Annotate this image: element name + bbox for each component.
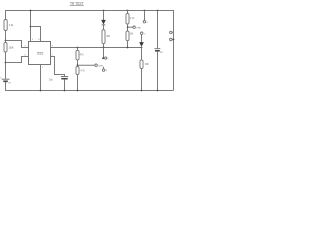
node pin1 ground junction bbox=[40, 90, 42, 92]
wire junction to R3 bbox=[77, 48, 79, 51]
terminal probe upper circle bbox=[170, 31, 173, 34]
svg-text:4.7k: 4.7k bbox=[80, 71, 85, 73]
node R7 output rail junction bbox=[127, 47, 129, 49]
wire R4 to ground bbox=[77, 75, 79, 91]
LED D2 bbox=[139, 42, 144, 47]
wire bottom ground rail bbox=[6, 82, 174, 91]
wire node D to PNP base terminal bbox=[128, 26, 133, 28]
wire R2 bottom to node B bbox=[5, 52, 7, 79]
terminal base NPN circle bbox=[95, 64, 97, 66]
node LED1 supply junction bbox=[103, 10, 105, 12]
svg-text:E: E bbox=[106, 70, 108, 72]
capacitor C1 bottom plate bbox=[61, 78, 67, 80]
terminal collector2 circle bbox=[141, 32, 143, 34]
terminal emitter2 circle bbox=[143, 21, 145, 23]
node collector stub junction bbox=[102, 57, 104, 59]
svg-text:10u: 10u bbox=[49, 80, 54, 82]
wire R7 to output rail bbox=[127, 41, 129, 48]
battery BT1 minus plate bbox=[3, 80, 8, 82]
node C2 ground junction bbox=[157, 90, 159, 92]
title TR TEST bbox=[70, 1, 84, 6]
terminal PNP base circle bbox=[133, 26, 135, 28]
node R5 output rail junction bbox=[103, 47, 105, 49]
resistor R6 4.7k bbox=[126, 13, 129, 24]
wire supply to LED1 bbox=[103, 11, 105, 21]
svg-text:1M: 1M bbox=[130, 33, 133, 35]
svg-text:C: C bbox=[144, 33, 146, 35]
svg-text:1u: 1u bbox=[160, 52, 163, 54]
node C2 supply junction bbox=[157, 10, 159, 12]
wire supply to emitter2 terminal bbox=[144, 11, 146, 21]
node Vcc tap junction bbox=[30, 10, 32, 12]
wire R8 to ground bbox=[141, 69, 143, 91]
svg-text:555: 555 bbox=[37, 52, 43, 56]
wire top supply rail bbox=[6, 11, 174, 91]
wire pin 1 to ground bbox=[40, 65, 42, 91]
wire R6 to node D bbox=[127, 24, 129, 31]
capacitor C1 top plate bbox=[61, 76, 68, 78]
node C1 ground junction bbox=[64, 90, 66, 92]
svg-text:390: 390 bbox=[145, 64, 150, 66]
resistor R7 1M bbox=[126, 31, 129, 41]
wire branch to pin 8 bbox=[31, 27, 41, 42]
wire pin 3 output rail bbox=[51, 47, 142, 49]
terminal collector circle bbox=[105, 57, 107, 59]
wire probe upper stub bbox=[172, 31, 174, 33]
resistor R1 3.3k bbox=[4, 20, 7, 31]
svg-text:1: 1 bbox=[42, 67, 44, 69]
terminal probe lower circle bbox=[170, 38, 173, 41]
node R4 ground junction bbox=[77, 90, 79, 92]
svg-text:E: E bbox=[147, 22, 149, 24]
svg-text:NPN: NPN bbox=[98, 65, 103, 67]
wire R5 to output rail bbox=[103, 44, 105, 48]
wire R3 to node C bbox=[77, 60, 79, 67]
resistor R3 47k bbox=[76, 50, 79, 60]
LED D1 bbox=[101, 20, 106, 25]
svg-text:47k: 47k bbox=[80, 55, 85, 57]
svg-text:4: 4 bbox=[32, 39, 34, 41]
wire supply to R6 bbox=[127, 11, 129, 14]
svg-text:C: C bbox=[107, 58, 109, 60]
node B junction bbox=[5, 62, 7, 64]
wire emitter terminal stub bbox=[103, 67, 105, 69]
capacitor C2 top plate bbox=[155, 48, 161, 50]
battery BT1 plus plate bbox=[2, 78, 10, 80]
wire pin 2 to capacitor C1 bbox=[51, 57, 65, 77]
svg-text:100k: 100k bbox=[9, 48, 15, 50]
wire output rail to R8 bbox=[141, 48, 143, 60]
wire output rail to collector terminal bbox=[103, 48, 105, 59]
resistor R2 100k bbox=[4, 42, 7, 52]
capacitor C2 bottom plate bbox=[155, 50, 160, 52]
node output rail to R3 junction bbox=[77, 47, 79, 49]
op-amp U1 555 timer body bbox=[29, 42, 51, 65]
node pin4/8 branch junction bbox=[30, 26, 32, 28]
resistor R5 390 bbox=[102, 30, 105, 44]
svg-text:4.7k: 4.7k bbox=[130, 18, 135, 20]
svg-text:3.3k: 3.3k bbox=[9, 25, 14, 27]
title underline bbox=[70, 5, 84, 7]
svg-text:390: 390 bbox=[106, 36, 111, 38]
wire R1 bottom to node A bbox=[5, 31, 7, 43]
node C junction bbox=[77, 64, 79, 66]
wire node B to pin 6 bbox=[6, 57, 29, 63]
terminal emitter circle bbox=[102, 69, 104, 71]
node probe lower junction bbox=[173, 39, 175, 41]
resistor R8 390 bbox=[140, 60, 143, 69]
node R6 supply junction bbox=[127, 10, 129, 12]
node LED2 output rail junction bbox=[141, 47, 143, 49]
svg-text:PNP: PNP bbox=[137, 27, 142, 29]
wire Vcc tap to pin 4 bbox=[30, 11, 32, 42]
wire collector2 to LED2 bbox=[141, 34, 143, 42]
wire LED1 to R5 bbox=[103, 25, 105, 30]
resistor R4 4.7k bbox=[76, 67, 79, 75]
node R8 ground junction bbox=[141, 90, 143, 92]
wire C2 to ground bbox=[157, 51, 159, 90]
wire C1 to ground bbox=[64, 79, 66, 90]
svg-text:9V: 9V bbox=[8, 82, 11, 84]
node emitter2 supply junction bbox=[144, 10, 146, 12]
wire node C to base terminal bbox=[78, 64, 95, 66]
wire node A to pin 7 bbox=[6, 41, 29, 48]
node D junction bbox=[127, 26, 129, 28]
node A junction bbox=[5, 40, 7, 42]
LED D1 cathode bar bbox=[102, 24, 106, 26]
wire probe lower stub bbox=[172, 39, 174, 41]
wire LED2 to output rail bbox=[141, 46, 143, 49]
wire supply to capacitor C2 bbox=[157, 11, 159, 49]
